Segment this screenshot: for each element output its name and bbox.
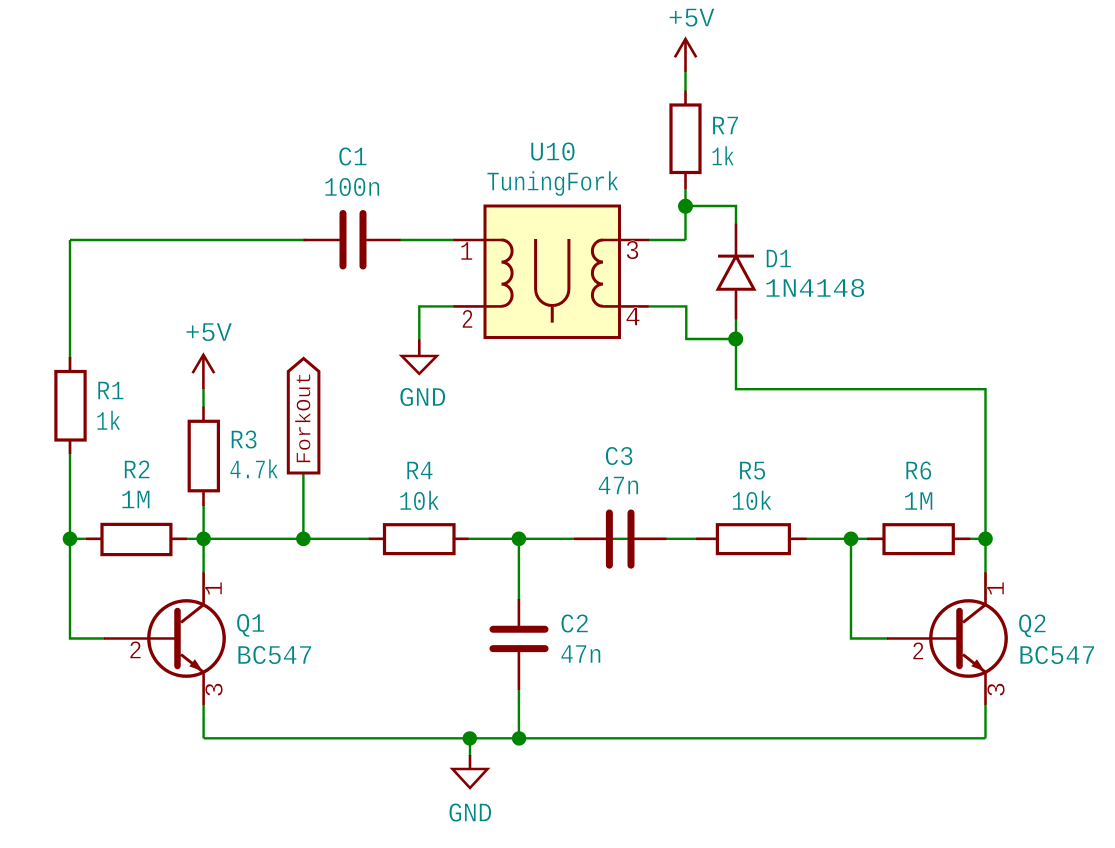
svg-text:TuningFork: TuningFork: [487, 170, 620, 200]
svg-text:R7: R7: [711, 114, 740, 144]
svg-text:Q1: Q1: [236, 611, 266, 641]
svg-text:Q2: Q2: [1018, 612, 1048, 642]
wire ForkOut stem: [302, 473, 304, 539]
wire Q2 collector from bus: [984, 539, 986, 600]
svg-text:4: 4: [625, 305, 641, 335]
U10 pin 3: [603, 239, 649, 242]
wire GND2 stem: [469, 738, 471, 756]
resistor R4: [369, 459, 469, 554]
svg-text:R5: R5: [738, 458, 767, 488]
net label ForkOut: [288, 359, 319, 474]
wire bottom bus: [204, 737, 986, 739]
U10 left coil: [502, 240, 513, 306]
ground GND U10 pin2: [399, 340, 447, 416]
svg-text:2: 2: [129, 637, 143, 667]
wire C1 right to U10 pin1: [400, 239, 455, 241]
U10 right coil: [592, 240, 603, 306]
capacitor C2: [493, 599, 603, 690]
svg-text:1: 1: [200, 581, 230, 597]
U10 pin 2: [454, 305, 502, 308]
power flag +5V top: [668, 6, 715, 72]
U10 pin 1: [454, 239, 502, 242]
capacitor C1: [304, 145, 401, 266]
svg-text:2: 2: [461, 307, 474, 337]
resistor R7: [671, 91, 740, 189]
wire Q1 base branch: [70, 539, 105, 639]
svg-text:10k: 10k: [399, 489, 441, 519]
svg-text:1k: 1k: [711, 145, 735, 175]
wire C2 top lead: [518, 539, 520, 600]
U10 pin 4: [603, 305, 649, 308]
wire R3 top stub: [202, 388, 204, 408]
svg-text:1k: 1k: [96, 409, 122, 439]
wire R7 top stub: [684, 72, 686, 91]
svg-text:BC547: BC547: [236, 643, 313, 673]
wire U10 pin3 to R7 node: [648, 207, 686, 240]
node junction D1 anode: [728, 332, 743, 347]
svg-text:3: 3: [625, 238, 640, 268]
wire D1 bottom to node: [735, 319, 737, 339]
node junction bus right: [978, 532, 993, 547]
svg-text:GND: GND: [399, 385, 447, 415]
transistor Q1: [104, 572, 313, 705]
wire Q2 base branch: [851, 539, 888, 639]
node junction ForkOut: [296, 532, 311, 547]
wire R3 bottom to bus: [202, 505, 204, 539]
svg-text:ForkOut: ForkOut: [295, 372, 318, 464]
wire C2 bottom lead: [518, 689, 520, 738]
node junction R5/R6: [844, 532, 859, 547]
svg-text:D1: D1: [765, 246, 792, 276]
svg-text:BC547: BC547: [1018, 643, 1096, 673]
svg-text:R3: R3: [230, 428, 259, 458]
node junction R7/D1: [678, 199, 693, 214]
wire Q1 collector to bus: [202, 539, 204, 600]
svg-text:3: 3: [201, 682, 231, 698]
ground GND bottom: [448, 755, 493, 831]
node junction bus left: [63, 532, 78, 547]
wire left vertical R1 branch: [69, 240, 71, 539]
wire Q2 emitter down: [984, 704, 986, 738]
node junction C2 bottom: [512, 731, 526, 745]
svg-text:4.7k: 4.7k: [229, 458, 279, 488]
diode D1: [718, 224, 866, 320]
power flag +5V mid: [185, 320, 233, 389]
svg-text:100n: 100n: [324, 175, 382, 205]
wire main middle bus: [70, 538, 986, 540]
resistor R6: [867, 458, 970, 553]
wire U10 pin2 to GND: [419, 306, 454, 340]
wire U10 pin4 route to D1 node: [649, 306, 736, 339]
svg-text:3: 3: [983, 682, 1013, 698]
wire Q1 emitter down: [202, 704, 204, 738]
svg-text:R4: R4: [405, 459, 434, 489]
svg-text:1M: 1M: [120, 488, 151, 518]
svg-text:10k: 10k: [731, 489, 773, 519]
component U10 TuningFork: [454, 140, 649, 338]
capacitor C3: [574, 444, 667, 565]
svg-text:+5V: +5V: [668, 6, 715, 36]
node junction R2/R3: [196, 532, 211, 547]
svg-text:1N4148: 1N4148: [764, 276, 866, 306]
resistor R2: [86, 458, 187, 555]
svg-text:C2: C2: [560, 611, 590, 641]
svg-text:1: 1: [982, 581, 1012, 597]
svg-text:1: 1: [460, 239, 474, 269]
wire top-left horizontal from R1 to C1: [70, 239, 306, 241]
svg-text:C3: C3: [604, 444, 634, 474]
wire D1 node down right side to bus: [736, 339, 986, 539]
svg-text:C1: C1: [338, 145, 368, 175]
node junction R4/C3/C2: [512, 532, 527, 547]
svg-text:2: 2: [912, 637, 926, 667]
resistor R3: [189, 407, 279, 506]
wire R7 node to D1 top: [686, 206, 737, 225]
svg-text:R1: R1: [96, 379, 124, 409]
svg-text:47n: 47n: [597, 474, 640, 504]
svg-text:+5V: +5V: [185, 320, 233, 350]
svg-text:47n: 47n: [560, 642, 603, 672]
resistor R1: [56, 357, 125, 454]
svg-text:R6: R6: [904, 458, 933, 488]
svg-text:R2: R2: [123, 458, 152, 488]
svg-text:GND: GND: [448, 801, 493, 831]
resistor R5: [696, 458, 807, 553]
transistor Q2: [887, 572, 1096, 705]
svg-text:U10: U10: [529, 140, 576, 170]
U10 tuning fork glyph: [536, 239, 569, 323]
wire R7 bottom stub: [684, 189, 686, 207]
svg-text:1M: 1M: [903, 489, 934, 519]
node junction bottom GND: [463, 731, 477, 745]
